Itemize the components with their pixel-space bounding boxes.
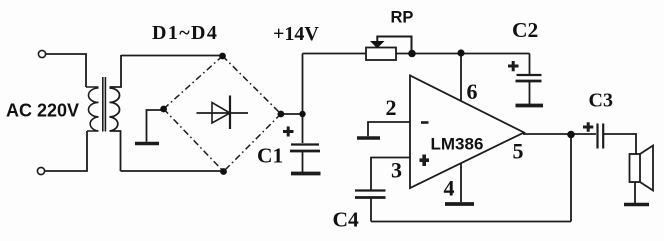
svg-text:6: 6 [467,79,478,104]
svg-text:3: 3 [391,158,402,183]
svg-text:5: 5 [513,139,524,164]
svg-text:4: 4 [444,176,455,201]
svg-text:LM386: LM386 [431,135,484,154]
svg-text:C4: C4 [333,208,360,232]
svg-text:D1~D4: D1~D4 [152,22,218,44]
svg-text:C1: C1 [257,144,283,168]
svg-text:C2: C2 [512,18,538,42]
svg-text:C3: C3 [589,90,613,112]
svg-text:+14V: +14V [273,23,319,45]
svg-text:2: 2 [386,95,397,120]
svg-text:RP: RP [391,9,414,27]
svg-text:AC 220V: AC 220V [6,101,79,121]
